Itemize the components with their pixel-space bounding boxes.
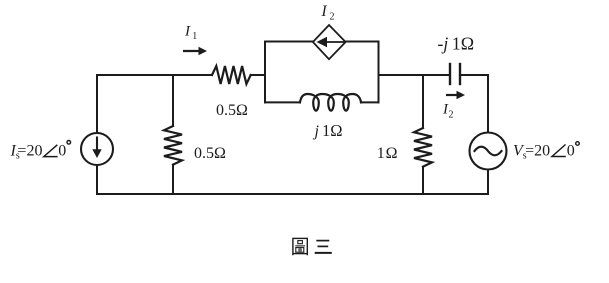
svg-text:1Ω: 1Ω bbox=[377, 145, 399, 162]
svg-text:0: 0 bbox=[567, 143, 575, 160]
svg-text:1Ω: 1Ω bbox=[452, 33, 474, 53]
svg-text:1: 1 bbox=[192, 31, 197, 42]
svg-text:Vs=20: Vs=20 bbox=[513, 143, 550, 162]
svg-text:Is=20: Is=20 bbox=[10, 143, 43, 162]
svg-text:2: 2 bbox=[330, 12, 335, 23]
svg-text:1Ω: 1Ω bbox=[322, 121, 343, 140]
svg-text:I: I bbox=[321, 3, 328, 20]
svg-text:-j: -j bbox=[438, 34, 449, 54]
svg-text:0: 0 bbox=[58, 143, 66, 160]
svg-text:0.5Ω: 0.5Ω bbox=[216, 102, 248, 119]
svg-text:I: I bbox=[184, 24, 191, 40]
svg-text:2: 2 bbox=[449, 110, 454, 121]
svg-text:j: j bbox=[313, 123, 320, 140]
svg-text:0.5Ω: 0.5Ω bbox=[194, 145, 226, 162]
